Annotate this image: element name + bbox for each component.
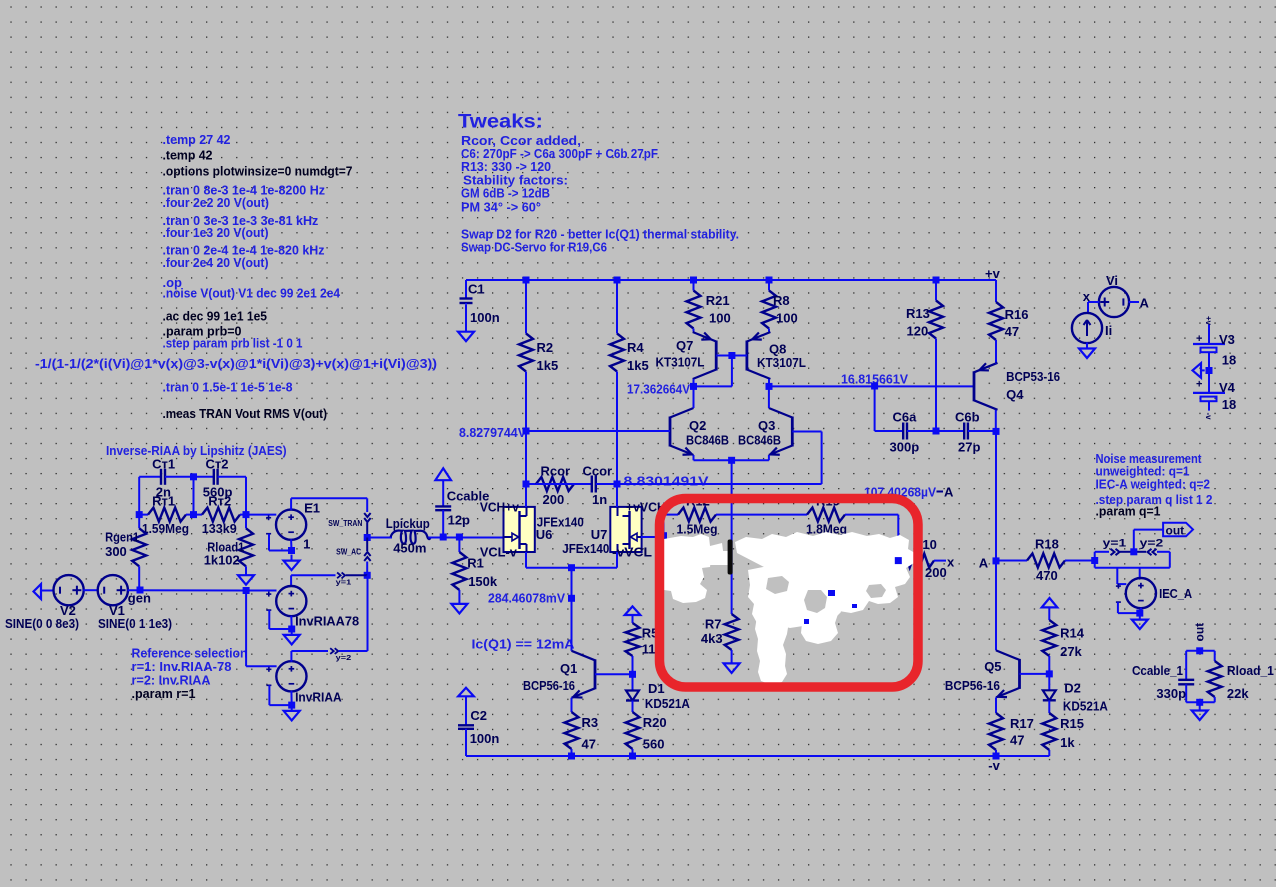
svg-text:R20: R20 [643,715,667,730]
svg-text:100: 100 [776,311,798,326]
junction [1196,647,1203,654]
svg-text:Tweaks:: Tweaks: [458,112,543,133]
white scribble annotation [655,532,915,685]
tie mark [937,491,944,493]
wire [1020,673,1050,675]
svg-text:Rт1: Rт1 [152,494,175,509]
capacitor Cr2 [194,469,247,485]
svg-text:KD521A: KD521A [645,696,691,711]
svg-text:U6: U6 [536,527,553,542]
control pins [266,667,271,686]
junction [568,753,575,760]
svg-text:Vi: Vi [1106,273,1118,288]
svg-text:R18: R18 [1035,537,1059,552]
svg-text:E1: E1 [304,501,320,516]
svg-text:47: 47 [582,737,596,752]
svg-text:PM 34° -> 60°: PM 34° -> 60° [461,200,541,215]
junction [629,753,636,760]
wire [526,483,536,485]
svg-text:VCH+v: VCH+v [480,500,520,515]
wire [290,575,292,586]
svg-text:Swap DC-Servo for R19,C6: Swap DC-Servo for R19,C6 [461,240,607,255]
wire [769,385,974,387]
svg-text:R2: R2 [537,340,554,355]
junction [1046,670,1053,677]
wire [1117,583,1126,585]
ground [1192,705,1208,721]
junction [629,671,636,678]
wire [995,697,997,713]
capacitor Ccable [435,480,451,537]
node 284.46078mV [568,595,575,602]
resistor Rr1 [139,508,193,522]
svg-text:Rgen1: Rgen1 [105,529,139,544]
junction [614,277,621,284]
svg-text:Rload_1: Rload_1 [1227,663,1274,678]
svg-text:y=1: y=1 [1103,538,1127,550]
junction [895,557,902,564]
svg-text:.ac dec 99 1e1 1e5: .ac dec 99 1e1 1e5 [163,309,268,324]
source E1 [276,510,306,540]
svg-text:Ccable_1: Ccable_1 [1132,663,1183,678]
resistor R20 [626,712,640,756]
wire [768,386,770,408]
junction [288,547,295,554]
svg-text:KT3107L: KT3107L [656,355,705,370]
wire [993,279,996,281]
control pins [1116,584,1121,603]
ground [1079,343,1095,359]
switch y=2 left [291,648,367,654]
svg-text:.meas TRAN Vout RMS V(out): .meas TRAN Vout RMS V(out) [163,406,328,421]
svg-text:V4: V4 [1219,380,1236,395]
svg-text:gen: gen [128,591,151,606]
svg-text:27k: 27k [1060,644,1082,659]
jfet U7 [610,507,641,552]
svg-text:y=2: y=2 [1140,538,1164,550]
svg-text:284.46078mV: 284.46078mV [488,591,565,606]
resistor R19 [732,508,899,522]
svg-text:KT3107L: KT3107L [757,355,806,370]
svg-text:120: 120 [907,324,929,339]
svg-text:150k: 150k [468,574,498,589]
svg-text:560: 560 [643,737,665,752]
svg-text:1k5: 1k5 [627,358,649,373]
transistor Q3 [769,408,793,455]
wire [768,379,770,386]
junction [1136,610,1143,617]
wire [246,665,277,667]
svg-text:1.5Meg: 1.5Meg [677,522,718,537]
net flag arrow [435,468,451,480]
wire [1134,529,1163,531]
junction [137,587,144,594]
wire [83,589,98,591]
wire [995,561,997,651]
svg-text:R15: R15 [1060,716,1084,731]
wire [595,673,633,675]
resistor Rgen1 [132,528,146,590]
diode D1 [626,674,639,712]
svg-text:Inverse-RIAA by Lipshitz (JAES: Inverse-RIAA by Lipshitz (JAES) [106,443,287,458]
wire [525,484,527,507]
ground [1132,614,1148,630]
wire [641,536,663,538]
wire [526,567,617,569]
svg-text:D1: D1 [648,681,665,696]
svg-text:V3: V3 [1219,332,1235,347]
net flag arrow [625,606,641,615]
junction [871,383,878,390]
svg-text:BCP56-16: BCP56-16 [523,678,575,693]
svg-text:y=1: y=1 [336,577,352,586]
capacitor Cr1 [139,469,193,485]
junction [440,534,447,541]
svg-text:22k: 22k [1227,686,1249,701]
svg-text:-1/(1-1/(2*(i(Vi)@1*v(x)@3-v(x: -1/(1-1/(2*(i(Vi)@1*v(x)@3-v(x)@1*i(Vi)@… [35,356,437,371]
svg-text:1k5: 1k5 [537,358,559,373]
wire [269,550,292,552]
transistor Q8 [747,332,771,379]
junction [190,473,197,480]
svg-text:C6b: C6b [955,410,980,425]
net flag arrow [458,688,474,697]
node 8.8279744V [523,428,530,435]
resistor R3 [565,698,579,756]
transistor Q1 [572,651,596,698]
svg-text:17.362664V: 17.362664V [627,382,690,397]
wire [428,537,503,539]
svg-text:Q1: Q1 [560,661,577,676]
net flag arrow [34,584,42,599]
wire [246,590,276,592]
svg-text:8.8279744V: 8.8279744V [459,425,526,440]
svg-text:Q7: Q7 [676,338,693,353]
junction [614,481,621,488]
svg-text:.param q=1: .param q=1 [1096,504,1161,519]
resistor R17 [989,713,1003,756]
diode D2 [1043,674,1056,713]
wire [1129,301,1139,303]
svg-text:y=2: y=2 [336,653,352,662]
svg-text:Cт1: Cт1 [152,457,175,472]
wire [41,590,54,592]
resistor R4 [610,280,624,484]
svg-text:450m: 450m [393,541,426,556]
wire [617,483,822,485]
svg-text:SW_TRAN: SW_TRAN [328,519,362,528]
svg-text:.four 2e2 20 V(out): .four 2e2 20 V(out) [163,195,270,210]
resistor Rload1 [239,515,253,576]
switch SW_AC [364,538,370,576]
svg-text:.param r=1: .param r=1 [132,686,196,701]
svg-text:100n: 100n [470,731,500,746]
wire [291,497,367,499]
capacitor C1 [460,280,473,305]
ground [238,575,254,585]
inductor Lpickup [391,531,431,544]
current source Ii [1072,313,1102,343]
wire [1118,612,1139,614]
svg-text:A: A [1140,296,1150,311]
wire [269,704,291,706]
svg-text:D2: D2 [1064,681,1081,696]
wire [616,552,618,568]
wire [138,477,140,515]
wire [694,385,732,387]
control pins [266,515,271,534]
red annotation box [660,499,919,688]
junction [243,511,250,518]
wire [616,484,618,507]
svg-text:330p: 330p [1156,686,1186,701]
resistor R13 [929,280,943,431]
svg-text:A: A [979,556,989,571]
svg-text:IEC_A: IEC_A [1159,586,1193,601]
svg-text:R16: R16 [1005,307,1029,322]
wire [716,355,747,357]
blue specks in scribble [804,590,857,624]
resistor Rcor [526,477,574,491]
svg-text:+v: +v [1204,316,1213,326]
junction [523,277,530,284]
junction [993,753,1000,760]
svg-text:.temp 42: .temp 42 [163,148,213,163]
junction [523,481,530,488]
svg-text:Q2: Q2 [689,418,706,433]
junction [364,534,371,541]
svg-text:1k: 1k [1060,735,1075,750]
battery V3 [1193,324,1225,370]
source V2 [54,575,84,605]
svg-text:100n: 100n [470,310,500,325]
switch y=2 [1134,549,1170,555]
switch SW_TRAN [364,498,370,537]
junction [933,428,940,435]
wire [1169,552,1171,568]
capacitor C2 [458,696,474,756]
source InvRIAA [276,661,306,691]
resistor Rr2 [194,508,247,522]
svg-text:100: 100 [709,311,731,326]
svg-text:.temp 27 42: .temp 27 42 [163,132,231,147]
svg-text:1n: 1n [592,492,607,507]
wire [1140,608,1142,613]
resistor R16 [989,280,1003,364]
svg-text:470: 470 [1036,568,1058,583]
svg-text:+: + [1196,333,1202,345]
ground [284,707,300,721]
wire [525,552,527,568]
svg-text:IEC-A weighted: q=2: IEC-A weighted: q=2 [1096,477,1211,492]
control pins [266,592,271,611]
wire [268,685,270,705]
svg-text:47: 47 [1010,733,1024,748]
wire [995,410,997,432]
svg-text:Ii: Ii [1105,323,1112,338]
wire [571,598,573,651]
net flag arrow [1193,363,1202,378]
wire [290,498,292,510]
ground [458,305,474,342]
node A [993,557,1000,564]
wire [693,386,695,408]
svg-text:R14: R14 [1060,626,1085,641]
svg-text:.tran 0 1.5e-1 1e-5 1e-8: .tran 0 1.5e-1 1e-5 1e-8 [163,380,293,395]
wire [821,432,823,485]
wire [1094,561,1096,568]
junction [766,277,773,284]
wire [290,539,292,550]
svg-text:.four 2e4 20 V(out): .four 2e4 20 V(out) [163,255,269,270]
junction [288,702,295,709]
wire [693,455,695,460]
svg-text:InvRIAA: InvRIAA [295,690,342,705]
wire [571,568,573,599]
wire [526,430,670,432]
svg-text:-v: -v [988,758,1000,773]
capacitor Ccable_1 [1178,651,1194,703]
junction [933,277,940,284]
svg-text:SINE(0 1 1e3): SINE(0 1 1e3) [98,616,172,631]
out flag [1163,523,1193,537]
source InvRIAA78 [276,586,306,616]
svg-text:BCP56-16: BCP56-16 [945,678,1000,693]
svg-text:Q5: Q5 [984,659,1001,674]
switch y=1 [1095,549,1134,555]
wire [995,362,997,365]
svg-text:.noise V(out) V1 dec 99 2e1 2e: .noise V(out) V1 dec 99 2e1 2e4 [163,286,341,301]
svg-text:SINE(0 0 8e3): SINE(0 0 8e3) [5,616,79,631]
wire [571,698,573,712]
source V1 [98,575,128,605]
svg-text:R4: R4 [627,340,644,355]
wire [466,279,993,281]
svg-text:R13: R13 [906,306,930,321]
svg-text:133k9: 133k9 [202,521,237,536]
wire [268,534,270,551]
junction [728,352,735,359]
svg-text:+v: +v [985,266,1001,281]
svg-text:BC846B: BC846B [686,433,729,448]
wire [1094,552,1096,561]
wire [138,515,140,529]
capacitor Ccor [574,476,617,493]
wire [1116,568,1118,584]
wire [290,651,292,662]
capacitor C6b [936,423,996,440]
junction [456,534,463,541]
junction [1196,699,1203,706]
resistor Rload_1 [1208,651,1222,703]
junction [690,277,697,284]
svg-text:-v: -v [1204,413,1213,421]
wire [1095,567,1170,569]
wire [792,431,821,433]
svg-text:U7: U7 [591,527,608,542]
resistor R18 [996,554,1095,568]
svg-text:Rт2: Rт2 [208,494,231,509]
svg-text:JFEx140: JFEx140 [562,541,609,556]
svg-text:C2: C2 [470,708,487,723]
wire [290,691,292,705]
svg-text:BC846B: BC846B [738,433,781,448]
svg-text:R7: R7 [705,617,722,632]
svg-text:BCP53-16: BCP53-16 [1006,369,1060,384]
wire [1133,530,1135,552]
svg-text:12p: 12p [448,513,470,528]
resistor R21 [687,280,701,332]
resistor R15 [1042,713,1056,756]
junction [1091,557,1098,564]
junction [1130,548,1137,555]
wire [269,628,291,630]
source Vi [1099,287,1129,317]
wire [731,460,733,614]
svg-text:KD521A: KD521A [1063,699,1109,714]
node 17.362664V [690,383,697,390]
svg-text:Q3: Q3 [758,418,775,433]
svg-text:-vVCL: -vVCL [612,545,652,560]
junction [895,557,902,564]
svg-text:18: 18 [1222,397,1236,412]
transistor Q7 [693,332,717,379]
wire [245,477,247,515]
svg-text:GM 6dB -> 12dB: GM 6dB -> 12dB [461,186,550,201]
svg-text:27p: 27p [958,440,980,455]
wire [1087,302,1089,314]
svg-text:C1: C1 [468,282,485,297]
resistor R8 [762,280,776,332]
wire [1139,568,1141,579]
wire [1117,602,1119,613]
ground [451,604,467,614]
junction [993,428,1000,435]
wire [693,379,695,386]
svg-text:R3: R3 [582,715,599,730]
junction [568,564,575,571]
junction [1206,367,1213,374]
svg-text:Cт2: Cт2 [206,457,229,472]
svg-text:InvRIAA78: InvRIAA78 [295,614,359,629]
wire [367,537,392,539]
wire [245,591,247,667]
svg-text:C6a: C6a [893,410,918,425]
resistor R5 [626,615,640,674]
wire [127,589,246,591]
resistor R14 [1042,607,1056,674]
transistor Q2 [670,408,694,455]
svg-text:.options plotwinsize=0 numdgt=: .options plotwinsize=0 numdgt=7 [163,164,353,179]
wire [663,515,665,536]
transistor Q4 [974,363,998,410]
junction [136,511,143,518]
ground [284,631,300,645]
junction [728,457,735,464]
wire [367,575,369,651]
svg-text:x: x [1083,289,1091,304]
svg-text:8.8301491V: 8.8301491V [624,474,709,489]
resistor R10 [898,554,946,568]
svg-text:R8: R8 [773,293,790,308]
black marker stroke [728,540,733,575]
source IEC_A [1126,578,1156,608]
junction [243,587,250,594]
svg-text:out: out [1166,524,1185,538]
svg-text:SW_AC: SW_AC [336,548,361,557]
wire [1088,301,1099,303]
svg-text:VCL-v: VCL-v [480,545,518,560]
